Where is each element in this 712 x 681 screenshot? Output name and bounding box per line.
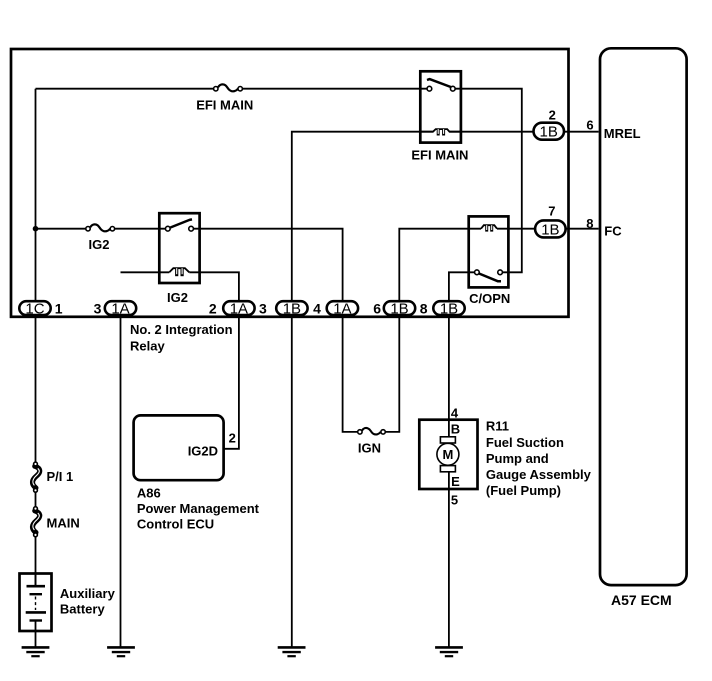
fuel pump box R11 [419, 420, 477, 489]
label No. 2 Integration Relay [130, 322, 233, 353]
svg-text:IG2: IG2 [167, 290, 188, 305]
svg-text:Power Management: Power Management [137, 501, 260, 516]
svg-text:2: 2 [209, 301, 217, 317]
svg-text:M: M [442, 447, 453, 462]
battery plate long [27, 585, 46, 588]
relay EFI MAIN switch [427, 79, 455, 91]
svg-text:(Fuel Pump): (Fuel Pump) [486, 483, 561, 498]
svg-text:MAIN: MAIN [47, 515, 80, 530]
svg-text:Gauge Assembly: Gauge Assembly [486, 467, 592, 482]
svg-text:EFI MAIN: EFI MAIN [196, 98, 253, 113]
wire EFI MAIN relay coil output to MREL [450, 131, 599, 133]
wire fuel pump to ground [448, 472, 450, 647]
ground relay 1A [107, 647, 135, 656]
svg-text:IG2: IG2 [89, 237, 110, 252]
battery plate short [30, 619, 43, 621]
junction node at IG2 branch [33, 226, 39, 232]
connector 1A [105, 301, 136, 318]
fuse IGN [358, 428, 386, 434]
connector 1B MREL [534, 123, 565, 141]
wire IGN fuse to connector 1B [386, 314, 400, 432]
wire IG2 relay coil right to connector 1A [189, 272, 239, 302]
svg-text:No. 2 Integration: No. 2 Integration [130, 322, 233, 337]
fusible link P/I 1 [33, 462, 40, 492]
fuse IG2 [86, 224, 115, 231]
wire top feed horizontal to EFI MAIN fuse and relay [36, 88, 214, 90]
connector 1C [19, 301, 50, 318]
connector 1B [384, 301, 415, 318]
ECM box A57 [600, 48, 687, 585]
svg-text:1A: 1A [230, 301, 248, 318]
svg-text:8: 8 [586, 216, 593, 231]
wire EFI MAIN relay switch output down to C/OPN switch [454, 89, 522, 273]
svg-text:E: E [451, 474, 460, 489]
wire connector 1A to IGN fuse [343, 314, 358, 432]
svg-text:3: 3 [259, 301, 267, 317]
wire MAIN link to battery [35, 537, 37, 585]
svg-text:1A: 1A [333, 301, 351, 318]
battery Auxiliary box [20, 574, 52, 632]
svg-text:3: 3 [94, 301, 102, 317]
wire between fusible links [35, 492, 37, 507]
wire IG2 relay switch output to connector 1A [191, 229, 343, 302]
svg-text:Pump and: Pump and [486, 451, 549, 466]
svg-text:Fuel Suction: Fuel Suction [486, 435, 564, 450]
svg-text:4: 4 [451, 405, 459, 420]
svg-text:1B: 1B [541, 221, 559, 238]
wire EFI MAIN relay coil feed from connector 1B [292, 132, 433, 302]
svg-text:1B: 1B [540, 124, 558, 141]
fuse EFI MAIN [214, 84, 243, 91]
battery plate short [30, 593, 43, 595]
relay C/OPN coil [481, 225, 497, 231]
wire C/OPN relay coil feed from connector 1B [399, 229, 481, 302]
relay EFI MAIN coil [421, 129, 461, 135]
wire battery feed vertical from top corner to connector 1C [35, 89, 37, 302]
relay C/OPN switch [475, 270, 503, 281]
wire connector 1B to ground [291, 314, 293, 647]
svg-text:6: 6 [586, 118, 593, 133]
wire C/OPN relay switch left to connector 1B [449, 272, 477, 302]
svg-text:7: 7 [548, 203, 555, 218]
battery plate long [26, 611, 46, 614]
svg-text:8: 8 [420, 301, 428, 317]
wire IG2 relay coil left to connector 1A [121, 271, 170, 273]
svg-text:1C: 1C [25, 301, 44, 318]
svg-text:IGN: IGN [358, 441, 381, 456]
relay EFI MAIN box [420, 71, 461, 142]
svg-text:Relay: Relay [130, 338, 165, 353]
A86 Power Management Control ECU box [134, 415, 224, 480]
wire C/OPN relay coil output to FC [497, 228, 599, 230]
svg-text:A57 ECM: A57 ECM [611, 592, 672, 608]
relay IG2 coil [169, 268, 189, 276]
svg-text:B: B [451, 421, 460, 436]
relay IG2 switch [165, 219, 193, 231]
wire battery to ground [35, 622, 37, 647]
connector 1A [327, 301, 358, 318]
svg-text:MREL: MREL [604, 126, 641, 141]
connector 1B [276, 301, 307, 318]
svg-text:IG2D: IG2D [188, 443, 218, 458]
relay IG2 box [159, 213, 199, 283]
svg-text:1B: 1B [390, 301, 408, 318]
svg-text:Control ECU: Control ECU [137, 517, 214, 532]
connector 1A [223, 301, 254, 318]
motor M fuel pump [437, 437, 459, 472]
svg-text:1B: 1B [283, 301, 301, 318]
svg-text:Battery: Battery [60, 602, 106, 617]
svg-text:1B: 1B [440, 301, 458, 318]
outer box No.2 Integration Relay [11, 49, 569, 317]
ground fuel pump [435, 647, 463, 656]
svg-text:Auxiliary: Auxiliary [60, 586, 116, 601]
wire connector 1A to A86 IG2D pin 2 [224, 314, 239, 449]
svg-text:6: 6 [373, 301, 381, 317]
svg-text:2: 2 [229, 430, 236, 445]
wire IG2 fuse to IG2 relay switch [115, 228, 167, 230]
svg-text:EFI MAIN: EFI MAIN [411, 148, 468, 163]
wire connector 1A to ground [120, 314, 122, 647]
svg-text:5: 5 [451, 492, 458, 507]
connector 1B FC [535, 220, 566, 238]
wire IG2 fuse row [36, 228, 86, 230]
svg-text:1A: 1A [111, 301, 129, 318]
ground battery [22, 647, 50, 656]
label R11 Fuel Suction Pump [486, 419, 592, 499]
svg-text:P/I 1: P/I 1 [47, 469, 74, 484]
svg-text:R11: R11 [486, 419, 509, 434]
svg-text:FC: FC [604, 223, 622, 238]
ground relay 1B [278, 647, 306, 656]
label A86 Power Management Control ECU [137, 485, 260, 531]
relay C/OPN box [469, 216, 509, 287]
svg-text:2: 2 [549, 108, 556, 123]
svg-text:1: 1 [55, 301, 63, 317]
svg-text:A86: A86 [137, 485, 161, 500]
svg-text:C/OPN: C/OPN [469, 291, 510, 306]
wire connector 1B to fuel pump [448, 314, 450, 437]
connector 1B [433, 301, 464, 318]
battery dashed link [35, 597, 37, 611]
svg-text:4: 4 [313, 301, 321, 317]
wire connector 1C to battery [35, 314, 37, 462]
fusible link MAIN [33, 507, 40, 537]
